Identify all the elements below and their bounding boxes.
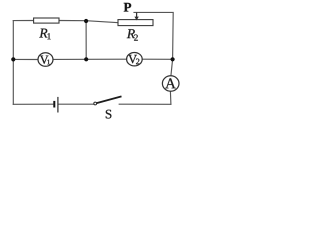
junction node top [84,19,88,23]
voltmeter V1 [38,53,53,67]
battery positive plate [57,97,59,113]
voltmeter V2 [127,53,143,66]
battery [53,97,58,113]
junction node middle right [171,57,175,61]
switch blade [97,96,122,103]
wire top middle [59,21,118,23]
wire ammeter to bottom [169,91,172,104]
junction node middle center [84,57,88,61]
rheostat R2 [118,20,153,41]
ammeter A [162,76,179,91]
wire bottom middle [59,103,94,105]
resistor R1 [34,18,59,39]
rheostat slider arrow [134,12,138,20]
junction node middle left [11,57,15,61]
battery negative plate [53,101,55,108]
wire right vertical to ammeter [171,59,173,76]
wire bottom left [13,103,53,105]
wire bottom right [119,103,171,105]
wire middle row right [142,58,173,60]
switch S [94,96,122,118]
switch pivot contact [94,102,97,105]
wire middle vertical [85,21,87,60]
wire left vertical [12,21,14,105]
wire top left [13,20,33,22]
wire middle row center [53,58,127,60]
label P [124,3,131,12]
wire middle row left [13,58,38,60]
label S [106,110,112,119]
wire rheostat slider to right corner [134,12,173,59]
